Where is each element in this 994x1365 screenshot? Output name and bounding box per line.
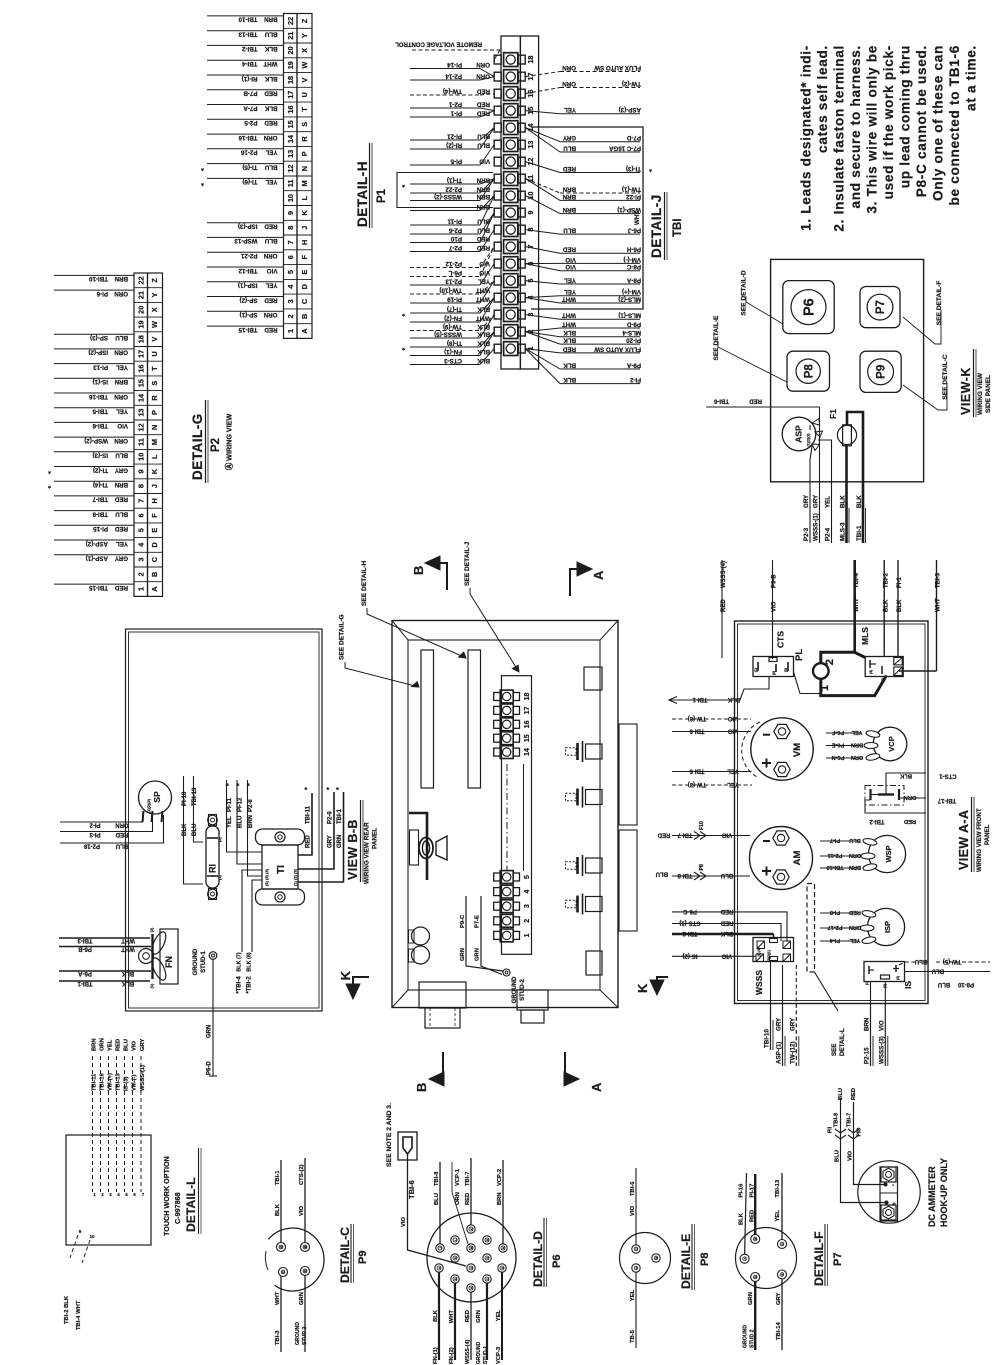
svg-text:Only one of these can: Only one of these can xyxy=(931,45,946,201)
TB1 terminal 13 xyxy=(504,138,518,152)
svg-text:TI-(5): TI-(5) xyxy=(242,163,257,170)
svg-text:BLU: BLU xyxy=(835,1150,841,1162)
svg-text:BLU: BLU xyxy=(264,237,277,244)
svg-text:TI-(2): TI-(2) xyxy=(93,466,108,473)
svg-text:BLU: BLU xyxy=(477,141,490,148)
svg-text:H: H xyxy=(150,498,159,503)
svg-text:P7-D: P7-D xyxy=(626,134,641,141)
svg-text:BLU: BLU xyxy=(849,837,861,843)
svg-text:WSP: WSP xyxy=(884,845,893,862)
svg-text:F: F xyxy=(150,513,159,518)
svg-text:BLK: BLK xyxy=(182,823,188,836)
svg-text:(6) (4): (6) (4) xyxy=(757,948,761,957)
svg-text:(3): (3) xyxy=(784,668,788,672)
svg-text:BRN: BRN xyxy=(851,742,863,748)
svg-text:VM: VM xyxy=(792,743,803,757)
svg-text:P2-15: P2-15 xyxy=(864,1047,871,1064)
svg-text:P6-F: P6-F xyxy=(831,729,844,735)
svg-text:BLK: BLK xyxy=(856,495,863,508)
svg-text:P6-L: P6-L xyxy=(448,269,462,276)
P6 wires down xyxy=(438,1273,440,1361)
dashed detail-L outline xyxy=(807,884,815,973)
svg-text:BLU: BLU xyxy=(838,1088,844,1100)
svg-text:SEE: SEE xyxy=(831,1044,838,1056)
T1 bottom wires xyxy=(242,870,262,952)
svg-text:YEL: YEL xyxy=(727,768,739,774)
ASP wire stubs xyxy=(810,446,812,482)
svg-text:VM-(+): VM-(+) xyxy=(622,288,641,295)
DETAIL-E P8 connector xyxy=(620,1233,671,1284)
svg-text:BLK: BLK xyxy=(433,1309,439,1322)
B pin 11 wire WSP-(2) ORN xyxy=(54,436,134,438)
svg-text:13: 13 xyxy=(526,141,535,149)
svg-text:WSSS-(5): WSSS-(5) xyxy=(434,330,462,337)
svg-text:ASP-(3): ASP-(3) xyxy=(619,106,641,113)
svg-text:9: 9 xyxy=(286,211,295,215)
svg-text:W: W xyxy=(300,62,309,69)
svg-text:TW-(1): TW-(1) xyxy=(622,185,641,192)
svg-text:RED: RED xyxy=(851,1088,857,1100)
svg-text:TOUCH WORK OPTION: TOUCH WORK OPTION xyxy=(162,1156,171,1236)
section arrow A bottom xyxy=(565,1052,572,1079)
svg-text:be connected to TB1-6: be connected to TB1-6 xyxy=(947,45,962,205)
svg-text:VIO: VIO xyxy=(630,1206,636,1216)
svg-text:PI-18: PI-18 xyxy=(182,791,188,806)
svg-text:P2-13: P2-13 xyxy=(445,277,462,284)
svg-text:FN-(2): FN-(2) xyxy=(444,314,462,321)
svg-text:2: 2 xyxy=(524,919,531,923)
svg-text:DETAIL-F: DETAIL-F xyxy=(812,1231,826,1286)
B pin 6 wire TBI-8 BLU xyxy=(54,510,134,512)
svg-text:K: K xyxy=(300,210,309,216)
svg-text:13: 13 xyxy=(136,409,145,417)
svg-text:1: 1 xyxy=(136,587,145,591)
svg-text:VCP-2: VCP-2 xyxy=(497,1169,503,1186)
svg-text:5: 5 xyxy=(286,270,295,274)
svg-text:P7: P7 xyxy=(875,300,887,314)
svg-text:ASP: ASP xyxy=(794,425,804,443)
svg-text:M: M xyxy=(300,180,309,186)
svg-text:F10: F10 xyxy=(699,821,705,830)
svg-text:*: * xyxy=(336,787,343,790)
svg-text:GRN: GRN xyxy=(337,835,343,848)
svg-text:ORN: ORN xyxy=(904,794,917,800)
svg-text:VM-(-): VM-(-) xyxy=(132,1075,138,1091)
svg-text:ORN: ORN xyxy=(263,134,277,141)
svg-text:RED: RED xyxy=(114,584,128,591)
svg-text:YEL: YEL xyxy=(849,937,860,943)
svg-text:P2-17: P2-17 xyxy=(828,924,843,930)
svg-text:CTS-(2): CTS-(2) xyxy=(299,1164,305,1185)
svg-text:TBI: TBI xyxy=(672,218,684,237)
WSSS wires from left xyxy=(672,912,787,941)
svg-text:PI-15: PI-15 xyxy=(93,525,108,532)
svg-text:F1: F1 xyxy=(828,409,838,419)
svg-text:PIO: PIO xyxy=(857,1128,863,1137)
svg-text:P9-B: P9-B xyxy=(772,574,778,588)
svg-text:WIRING VIEW: WIRING VIEW xyxy=(977,372,984,415)
svg-text:WHT: WHT xyxy=(634,211,641,225)
svg-text:VIO: VIO xyxy=(565,256,576,263)
svg-text:18: 18 xyxy=(136,335,145,343)
svg-text:BLK: BLK xyxy=(264,75,277,82)
svg-text:TBI-6: TBI-6 xyxy=(92,422,108,429)
svg-text:ORN: ORN xyxy=(849,852,861,858)
VCP xyxy=(873,727,907,761)
svg-text:1: 1 xyxy=(819,685,831,691)
VIEW B-B box inner xyxy=(408,640,600,990)
svg-text:CTS: CTS xyxy=(776,631,786,648)
svg-text:ISP: ISP xyxy=(883,921,892,933)
VIEW-K panel box xyxy=(771,259,924,481)
svg-text:P10: P10 xyxy=(450,235,462,242)
svg-text:SEE DETAIL-J: SEE DETAIL-J xyxy=(464,541,471,586)
svg-text:BLU: BLU xyxy=(721,872,733,878)
svg-text:20: 20 xyxy=(136,306,145,314)
T1 left wires xyxy=(227,780,263,852)
svg-text:6: 6 xyxy=(136,513,145,517)
fan FN xyxy=(160,929,178,984)
svg-text:10: 10 xyxy=(89,1234,95,1239)
svg-text:RED: RED xyxy=(749,398,762,404)
DC ammeter wires xyxy=(854,1102,885,1185)
TB1 terminal 12 xyxy=(504,155,518,169)
svg-text:TBI-3: TBI-3 xyxy=(77,937,93,943)
svg-text:used if the work pick-: used if the work pick- xyxy=(881,45,896,199)
svg-text:RED: RED xyxy=(264,119,278,126)
svg-text:PI-22: PI-22 xyxy=(626,193,641,200)
svg-text:ASP-(1): ASP-(1) xyxy=(86,555,108,562)
svg-text:BRN: BRN xyxy=(114,275,128,282)
svg-text:Y: Y xyxy=(150,293,159,298)
svg-text:DETAIL-D: DETAIL-D xyxy=(531,1231,545,1287)
svg-text:SP-(1): SP-(1) xyxy=(240,311,258,318)
resistor R1 xyxy=(206,826,219,888)
svg-text:TI-(4): TI-(4) xyxy=(93,481,108,488)
svg-text:ORN: ORN xyxy=(114,290,128,297)
svg-text:P7-A: P7-A xyxy=(243,104,258,111)
svg-text:TI-(8): TI-(8) xyxy=(447,339,462,346)
svg-text:RED: RED xyxy=(562,345,576,352)
svg-text:TI-(1): TI-(1) xyxy=(447,176,462,183)
svg-text:TBI-15: TBI-15 xyxy=(89,584,108,591)
svg-text:X: X xyxy=(300,48,309,53)
svg-text:PI-11: PI-11 xyxy=(447,217,462,224)
svg-text:TI-(3): TI-(3) xyxy=(626,165,641,172)
svg-text:11: 11 xyxy=(136,438,145,446)
A pin 20 wire TBI-2 BLK xyxy=(207,44,284,46)
svg-text:ORN: ORN xyxy=(562,64,576,71)
svg-text:PI-4: PI-4 xyxy=(829,937,840,943)
svg-text:RI-(1): RI-(1) xyxy=(242,75,258,82)
svg-text:2: 2 xyxy=(824,659,836,665)
AM ammeter xyxy=(750,827,813,890)
svg-text:BRN: BRN xyxy=(476,176,490,183)
B pin 3 wire ASP-(1) GRY xyxy=(54,554,134,556)
svg-text:BLK (7): BLK (7) xyxy=(236,952,242,971)
wires entering top of A-A xyxy=(721,560,723,658)
svg-text:TBI-7: TBI-7 xyxy=(92,496,108,503)
svg-text:*TBI-2: *TBI-2 xyxy=(246,976,252,994)
svg-text:(3)(2)(1): (3)(2)(1) xyxy=(767,950,771,962)
svg-text:VIO: VIO xyxy=(722,832,733,838)
svg-text:R: R xyxy=(150,395,159,401)
connector P8 xyxy=(787,351,830,391)
svg-text:WHT: WHT xyxy=(275,1291,281,1305)
svg-text:TBI-1: TBI-1 xyxy=(275,1170,281,1185)
svg-text:STUD-1: STUD-1 xyxy=(201,951,207,973)
svg-text:YEL: YEL xyxy=(727,781,739,787)
svg-text:GRY: GRY xyxy=(789,1017,796,1031)
svg-text:PI-21: PI-21 xyxy=(447,132,462,139)
svg-text:BRN: BRN xyxy=(92,1038,98,1051)
svg-text:(1) (2) (3): (1) (2) (3) xyxy=(293,868,298,886)
TB1 terminal 9 xyxy=(504,206,518,220)
svg-text:VIO: VIO xyxy=(728,728,739,734)
svg-text:P7-E: P7-E xyxy=(475,915,481,928)
svg-text:TBI-16: TBI-16 xyxy=(89,393,108,400)
svg-text:ORN: ORN xyxy=(476,72,490,79)
svg-text:1. Leads designated* indi-: 1. Leads designated* indi- xyxy=(799,45,814,231)
svg-text:J: J xyxy=(300,226,309,230)
svg-text:TW-(12): TW-(12) xyxy=(789,1041,796,1064)
svg-text:DETAIL-C: DETAIL-C xyxy=(338,1227,352,1283)
svg-text:PI-19: PI-19 xyxy=(447,295,462,302)
svg-text:(6) (5) (4): (6) (5) (4) xyxy=(264,868,269,886)
VM wires xyxy=(672,718,751,720)
svg-text:(1): (1) xyxy=(218,875,222,880)
svg-text:17: 17 xyxy=(524,706,531,714)
svg-text:DC AMMETER: DC AMMETER xyxy=(927,1166,937,1227)
svg-text:18: 18 xyxy=(524,693,531,701)
svg-text:TBI-4 WHT: TBI-4 WHT xyxy=(76,1300,82,1330)
svg-text:MLS-3: MLS-3 xyxy=(840,522,847,541)
svg-text:13: 13 xyxy=(286,150,295,158)
connector shells bottom xyxy=(419,982,466,1008)
svg-text:P2-1: P2-1 xyxy=(448,100,462,107)
terminal strip in B-B upper (14-18) xyxy=(500,690,513,703)
svg-text:PI-20: PI-20 xyxy=(626,337,641,344)
wires below VIEW-K xyxy=(809,482,811,543)
A pin 22 wire TBI-10 BRN xyxy=(207,15,284,17)
svg-text:PI-3: PI-3 xyxy=(89,831,101,837)
svg-text:WSP-(2): WSP-(2) xyxy=(84,437,108,444)
svg-text:TBI-6: TBI-6 xyxy=(713,398,729,404)
A pin 18 wire RI-(1) BLK xyxy=(207,74,284,76)
svg-text:15: 15 xyxy=(286,120,295,128)
P9 wires xyxy=(280,1160,282,1243)
svg-text:BLU: BLU xyxy=(192,824,198,836)
F1 wires xyxy=(845,445,848,482)
IS xyxy=(864,962,905,982)
svg-text:BLK (8): BLK (8) xyxy=(246,952,252,971)
svg-text:RED: RED xyxy=(562,246,576,253)
svg-text:TBI-8: TBI-8 xyxy=(834,1112,840,1127)
svg-text:HOOK-UP ONLY: HOOK-UP ONLY xyxy=(939,1158,949,1227)
TB1 terminal 14 xyxy=(504,121,518,135)
svg-text:TBI-14: TBI-14 xyxy=(776,1322,782,1340)
svg-text:11: 11 xyxy=(526,175,535,183)
svg-text:PII: PII xyxy=(699,864,705,871)
A pin 19 wire TBI-4 WHT xyxy=(207,59,284,61)
svg-text:TBI-8: TBI-8 xyxy=(434,1171,440,1186)
svg-text:P2-16: P2-16 xyxy=(240,149,257,156)
svg-text:YEL: YEL xyxy=(775,1210,781,1222)
svg-text:MLS-4: MLS-4 xyxy=(622,329,641,336)
svg-text:P9-D: P9-D xyxy=(626,320,641,327)
svg-text:RED: RED xyxy=(114,525,128,532)
svg-text:TBI-13: TBI-13 xyxy=(192,787,198,806)
svg-text:P: P xyxy=(150,410,159,415)
svg-text:P2-14: P2-14 xyxy=(445,72,462,79)
svg-text:CTS-3: CTS-3 xyxy=(444,357,462,364)
svg-text:*: * xyxy=(247,783,254,786)
svg-text:18: 18 xyxy=(526,56,535,64)
TB1 terminal 15 xyxy=(504,104,518,118)
svg-text:1: 1 xyxy=(286,329,295,333)
B pin 14 wire TBI-16 ORN xyxy=(54,392,134,394)
svg-text:TI: TI xyxy=(276,865,287,874)
svg-text:WHT: WHT xyxy=(562,295,576,302)
svg-text:TW-(4): TW-(4) xyxy=(443,87,462,94)
svg-text:BRN: BRN xyxy=(849,864,861,870)
binding posts right side xyxy=(566,748,577,756)
svg-text:9: 9 xyxy=(136,469,145,473)
svg-text:WHT: WHT xyxy=(476,314,490,321)
svg-text:VIO: VIO xyxy=(878,1020,885,1031)
svg-text:BRN: BRN xyxy=(562,206,576,213)
svg-text:TBI-15: TBI-15 xyxy=(238,326,257,333)
svg-text:VM-(-): VM-(-) xyxy=(623,256,641,263)
svg-text:WSSS: WSSS xyxy=(754,970,764,995)
section arrow K right xyxy=(657,977,668,988)
svg-text:P2-12: P2-12 xyxy=(445,260,462,267)
P6 wires up xyxy=(439,1162,441,1244)
svg-text:PI-16: PI-16 xyxy=(739,1183,745,1198)
svg-text:YEL: YEL xyxy=(825,496,832,508)
svg-text:3: 3 xyxy=(286,299,295,303)
svg-text:BLK: BLK xyxy=(121,980,134,986)
svg-text:BLU: BLU xyxy=(238,816,244,828)
svg-text:GRY: GRY xyxy=(776,1293,782,1305)
svg-text:IS: IS xyxy=(903,981,913,989)
svg-text:TBI-1: TBI-1 xyxy=(77,980,93,986)
svg-text:FN: FN xyxy=(164,956,174,968)
svg-text:-: - xyxy=(892,1183,894,1189)
svg-text:VCP: VCP xyxy=(887,736,896,751)
svg-text:PANEL: PANEL xyxy=(984,824,991,845)
remote voltage control label xyxy=(412,49,500,51)
svg-text:TW-(9): TW-(9) xyxy=(443,323,462,330)
svg-text:P6-E: P6-E xyxy=(832,742,845,748)
svg-text:BLK: BLK xyxy=(477,348,490,355)
svg-text:BRN: BRN xyxy=(864,1017,871,1031)
svg-text:P6-H: P6-H xyxy=(626,246,641,253)
svg-text:YEL: YEL xyxy=(265,282,277,289)
svg-text:ISP-(3): ISP-(3) xyxy=(238,223,258,230)
svg-text:K: K xyxy=(150,468,159,474)
svg-text:RED: RED xyxy=(476,87,490,94)
svg-text:14: 14 xyxy=(136,393,145,402)
svg-text:TW-(10): TW-(10) xyxy=(439,286,462,293)
svg-text:STUD 2: STUD 2 xyxy=(750,1329,756,1348)
svg-text:TBI-3: TBI-3 xyxy=(936,572,942,588)
svg-text:BLK: BLK xyxy=(720,930,733,936)
svg-text:TBI-6: TBI-6 xyxy=(630,1181,636,1196)
svg-text:U: U xyxy=(300,92,309,97)
A pin 2 wire SP-(1) ORN xyxy=(207,310,284,312)
svg-text:TBI-13: TBI-13 xyxy=(116,1073,122,1091)
svg-text:15: 15 xyxy=(524,734,531,742)
svg-text:P2-5: P2-5 xyxy=(244,119,258,126)
svg-text:BLK: BLK xyxy=(563,376,576,383)
DETAIL-L touch work option box xyxy=(66,1135,151,1245)
svg-text:RED: RED xyxy=(264,296,278,303)
B pin 12 wire TBI-6 VIO xyxy=(54,421,134,423)
B pin 21 wire PI-6 ORN xyxy=(54,289,134,291)
svg-text:M: M xyxy=(150,439,159,445)
svg-text:SIDE PANEL: SIDE PANEL xyxy=(985,375,992,413)
svg-text:IS-(1): IS-(1) xyxy=(93,378,108,385)
TB1 terminal 18 xyxy=(504,53,518,67)
svg-text:P9-A: P9-A xyxy=(626,361,641,368)
svg-text:WSSS-(4): WSSS-(4) xyxy=(721,561,727,588)
svg-text:WHT: WHT xyxy=(449,1310,455,1324)
svg-text:BLU: BLU xyxy=(938,981,950,987)
svg-text:TBI-3: TBI-3 xyxy=(275,1330,281,1345)
svg-text:RI: RI xyxy=(208,864,218,873)
svg-text:17: 17 xyxy=(286,91,295,99)
slot bar 2 (detail-H ref) xyxy=(468,650,481,788)
TB1 terminal 4 xyxy=(504,291,518,305)
svg-text:GRN: GRN xyxy=(476,1310,482,1323)
svg-text:2. Insulate faston terminal: 2. Insulate faston terminal xyxy=(832,45,847,232)
svg-text:TBI-1: TBI-1 xyxy=(856,525,863,541)
svg-text:TBI-5: TBI-5 xyxy=(92,408,108,415)
svg-text:VIO: VIO xyxy=(722,952,733,958)
svg-text:P8-A: P8-A xyxy=(626,276,641,283)
svg-text:*: * xyxy=(237,783,244,786)
svg-text:*: * xyxy=(402,344,405,353)
svg-text:VIO: VIO xyxy=(565,263,576,270)
svg-text:TBI-10: TBI-10 xyxy=(764,1029,771,1048)
svg-text:WSP-13: WSP-13 xyxy=(234,237,258,244)
A pin 8 wire ISP-(3) RED xyxy=(207,222,284,224)
svg-text:TBI-11: TBI-11 xyxy=(306,805,312,824)
svg-text:GROUND: GROUND xyxy=(193,948,199,975)
svg-text:PI-7: PI-7 xyxy=(830,837,840,843)
svg-text:L: L xyxy=(150,454,159,459)
svg-text:H: H xyxy=(469,1287,473,1289)
svg-text:7: 7 xyxy=(286,240,295,244)
svg-text:GROUND: GROUND xyxy=(476,1341,482,1364)
TB1 terminal 3 xyxy=(504,308,518,322)
svg-text:WHT: WHT xyxy=(476,295,490,302)
svg-text:TBI-2: TBI-2 xyxy=(241,45,257,52)
svg-text:*TBI-4: *TBI-4 xyxy=(236,976,242,994)
svg-text:BLU: BLU xyxy=(477,226,490,233)
svg-text:TBI-11: TBI-11 xyxy=(92,1073,98,1091)
svg-text:PI-6: PI-6 xyxy=(96,290,108,297)
WSSS switch xyxy=(753,938,794,962)
svg-text:BLU: BLU xyxy=(115,452,128,459)
svg-text:BRN: BRN xyxy=(562,185,576,192)
svg-text:VCP-1: VCP-1 xyxy=(455,1168,461,1186)
svg-text:P2-22: P2-22 xyxy=(445,185,462,192)
connector P6 xyxy=(783,281,834,334)
svg-text:*: * xyxy=(48,467,51,476)
svg-text:RED: RED xyxy=(115,831,128,837)
